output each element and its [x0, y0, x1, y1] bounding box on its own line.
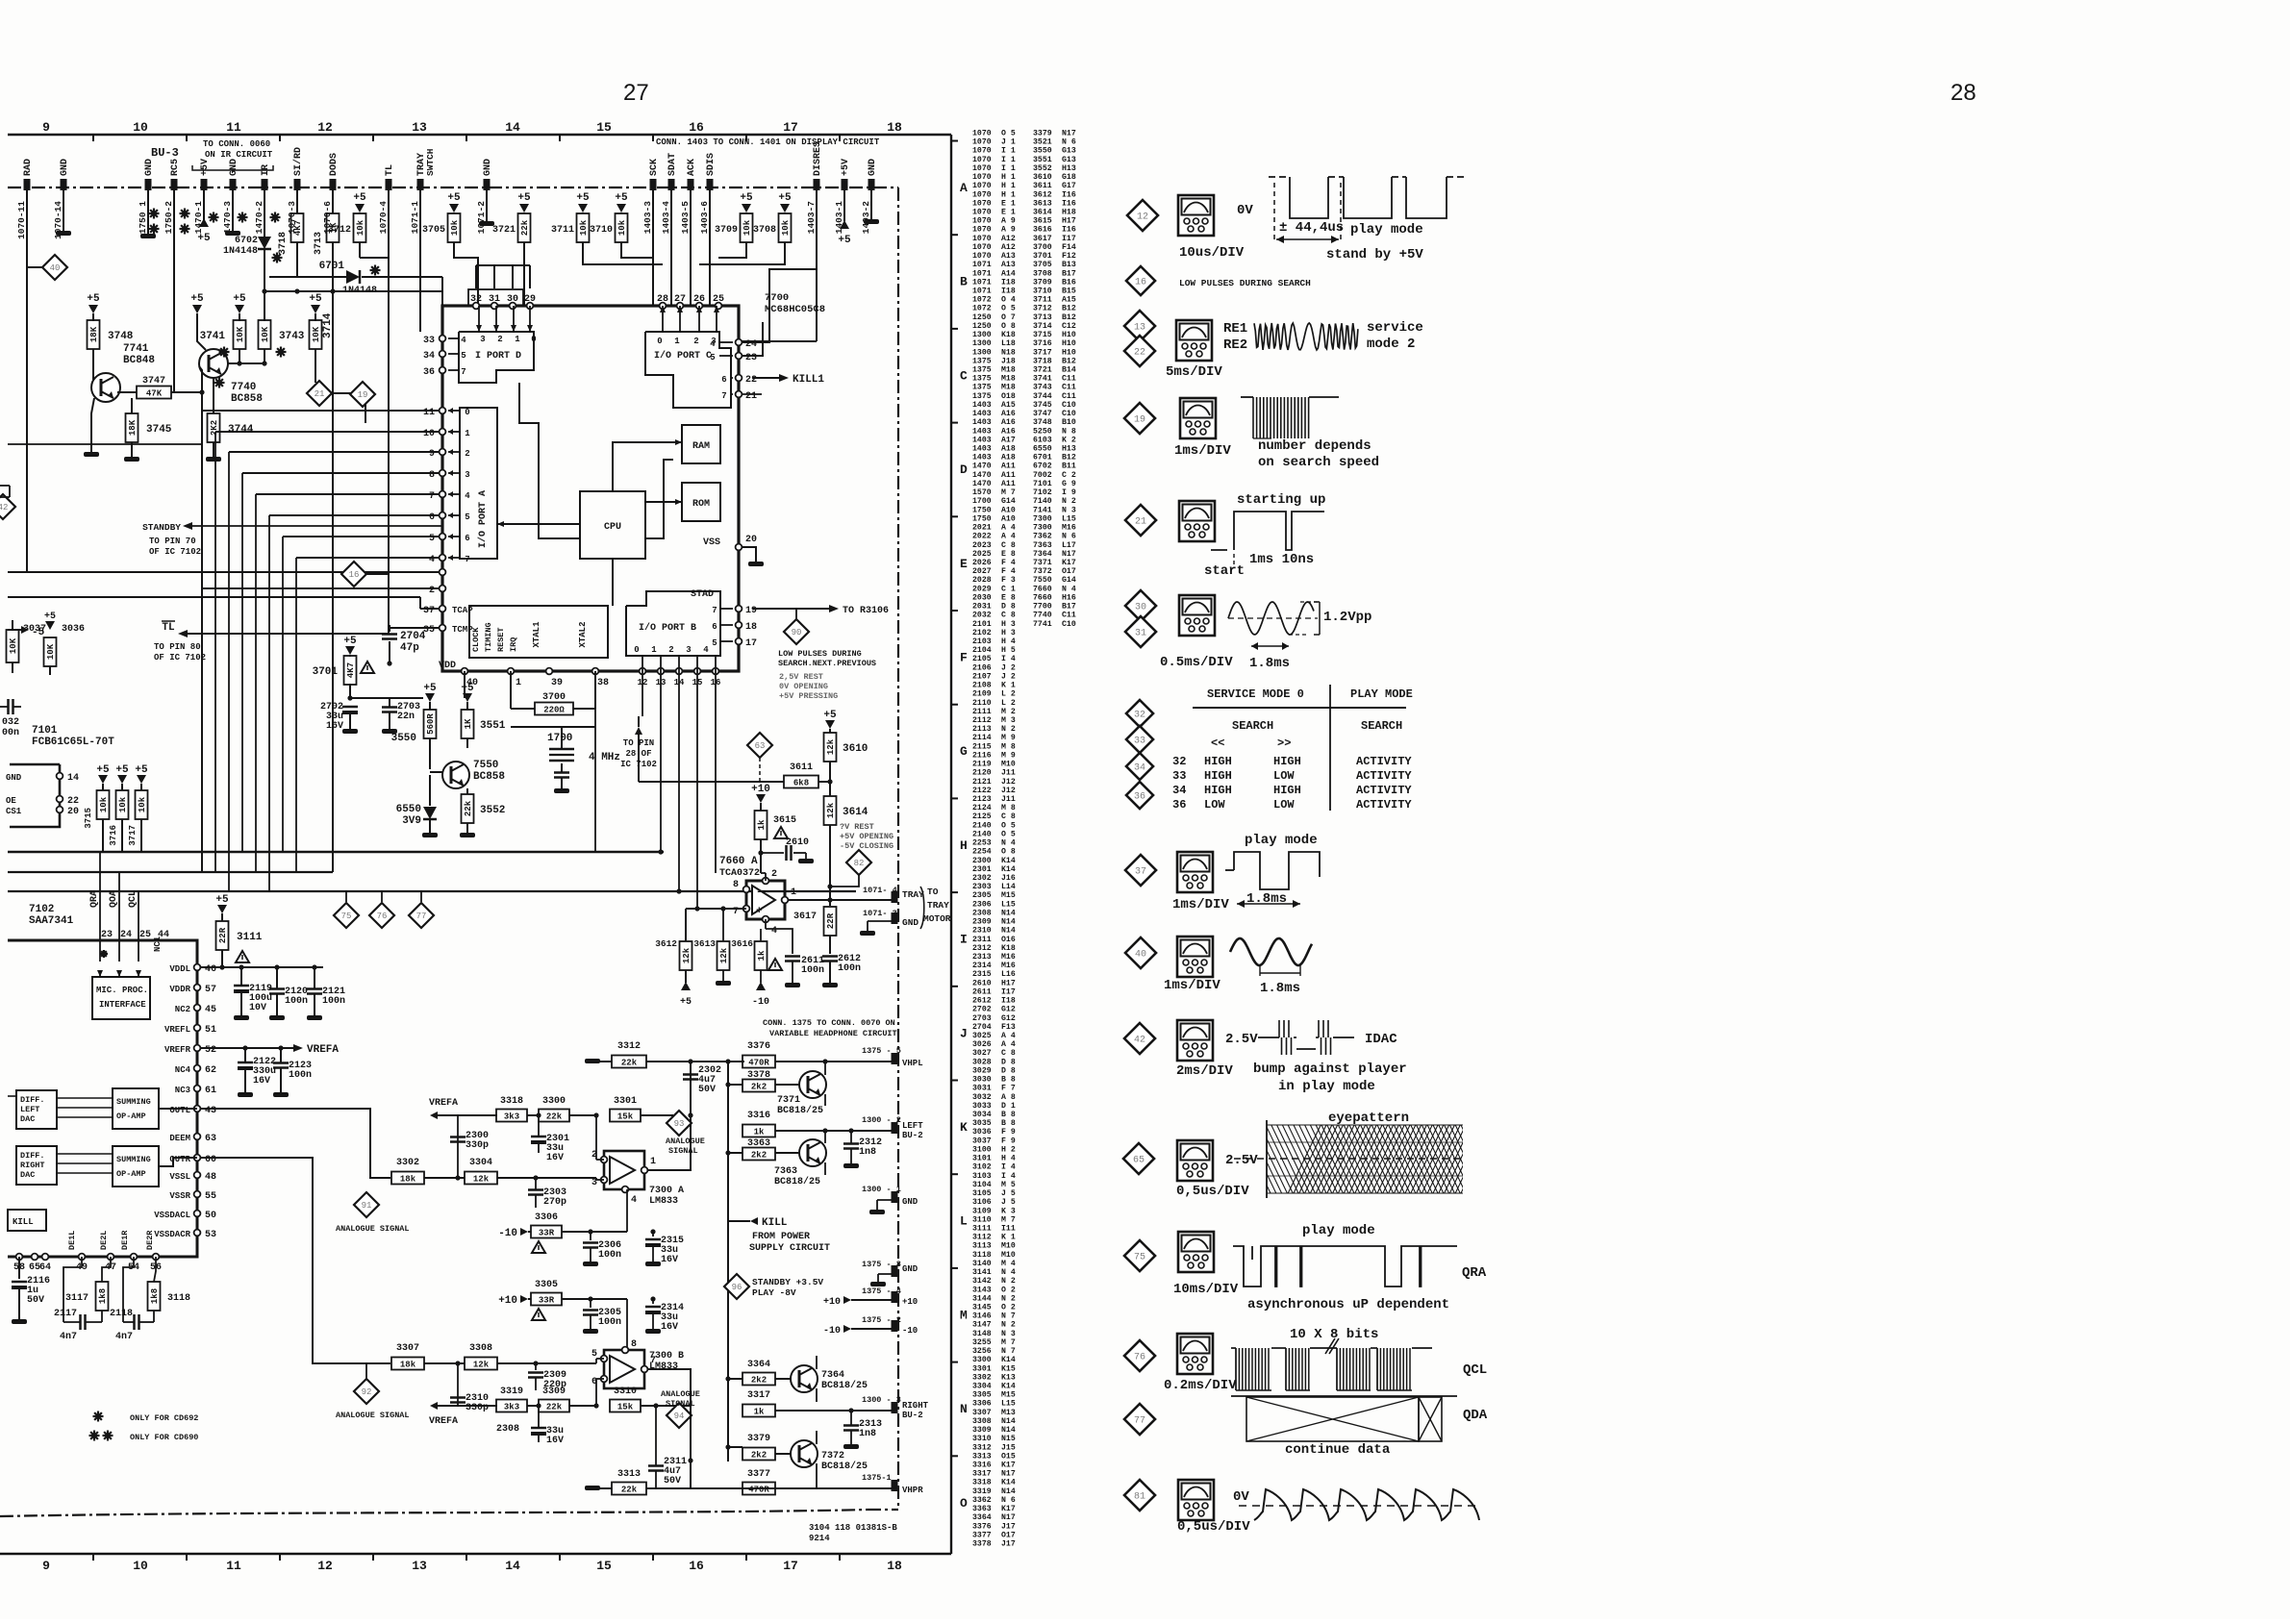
VSS pin 20 — [736, 544, 742, 551]
svg-text:O 2: O 2 — [1001, 1304, 1016, 1312]
svg-text:1403: 1403 — [972, 427, 992, 436]
svg-text:A15: A15 — [1001, 401, 1016, 410]
resistor 3317 1k — [742, 1405, 775, 1417]
svg-text:N17: N17 — [1001, 1470, 1016, 1479]
svg-text:+5: +5 — [517, 192, 531, 204]
svg-text:3748: 3748 — [1033, 418, 1052, 427]
selection mark — [272, 257, 283, 259]
top connector dash-dot line — [8, 187, 898, 188]
svg-text:LOW: LOW — [1273, 798, 1295, 812]
waveform ref diamond 40 — [1125, 937, 1156, 968]
svg-text:5: 5 — [465, 512, 469, 522]
crystal 1700 — [510, 671, 512, 709]
svg-text:BU-2: BU-2 — [902, 1411, 923, 1420]
svg-text:2301: 2301 — [972, 865, 992, 874]
svg-text:A17: A17 — [1001, 436, 1016, 444]
svg-text:18k: 18k — [400, 1361, 416, 1370]
svg-text:1403-7: 1403-7 — [806, 201, 817, 235]
svg-text:F: F — [960, 651, 968, 665]
svg-text:KILL: KILL — [762, 1217, 788, 1229]
svg-text:H18: H18 — [1062, 209, 1076, 217]
svg-text:CONN. 1375 TO CONN. 0070 ON: CONN. 1375 TO CONN. 0070 ON — [763, 1018, 895, 1028]
svg-text:LOW PULSES DURING: LOW PULSES DURING — [778, 649, 862, 659]
svg-text:0V OPENING: 0V OPENING — [779, 682, 828, 691]
svg-text:2.5V: 2.5V — [1225, 1153, 1258, 1168]
svg-text:4: 4 — [429, 555, 435, 565]
svg-text:3037: 3037 — [23, 624, 46, 635]
svg-text:+5: +5 — [309, 293, 322, 305]
waveform RE burst — [1254, 323, 1358, 350]
svg-text:N 7: N 7 — [1001, 1312, 1016, 1321]
svg-text:9: 9 — [42, 120, 50, 135]
svg-text:3113: 3113 — [972, 1242, 992, 1251]
port B pin 15 wire down — [696, 671, 698, 909]
svg-text:1ms/DIV: 1ms/DIV — [1174, 443, 1231, 459]
svg-text:50: 50 — [205, 1211, 216, 1221]
svg-text:1071: 1071 — [972, 287, 992, 296]
resistor 3743 10K — [264, 320, 265, 322]
ground — [869, 1210, 885, 1214]
svg-text:2124: 2124 — [972, 804, 992, 812]
resistor 3711 10k with +5 — [578, 204, 588, 212]
svg-text:1403-4: 1403-4 — [661, 201, 671, 235]
ground — [269, 1015, 285, 1020]
svg-text:asynchronous uP dependent: asynchronous uP dependent — [1247, 1297, 1449, 1312]
svg-text:25: 25 — [139, 930, 151, 940]
svg-text:B16: B16 — [1062, 278, 1076, 287]
svg-text:ON IR CIRCUIT: ON IR CIRCUIT — [205, 150, 273, 160]
svg-text:21: 21 — [315, 389, 325, 399]
connector pin 1470-2 — [262, 179, 268, 190]
svg-text:M: M — [960, 1308, 968, 1322]
svg-text:L16: L16 — [1001, 970, 1016, 979]
svg-text:H 4: H 4 — [1001, 637, 1016, 646]
svg-text:3721: 3721 — [492, 225, 516, 236]
svg-text:-10: -10 — [823, 1326, 841, 1337]
svg-text:1403: 1403 — [972, 454, 992, 462]
svg-text:1: 1 — [650, 1157, 656, 1167]
svg-text:1072: 1072 — [972, 296, 992, 305]
zener 6550 3V9 — [429, 775, 431, 806]
svg-text:2031: 2031 — [972, 603, 992, 612]
svg-text:100n: 100n — [801, 965, 824, 976]
svg-text:10k: 10k — [138, 796, 147, 812]
waveform ref diamond 42 — [1124, 1023, 1155, 1054]
svg-text:21: 21 — [745, 391, 757, 402]
opamp B wires — [575, 1362, 596, 1364]
svg-text:2122: 2122 — [972, 787, 992, 795]
svg-text:3111: 3111 — [972, 1225, 992, 1234]
svg-text:2102: 2102 — [972, 629, 992, 637]
svg-text:1ms/DIV: 1ms/DIV — [1164, 978, 1220, 993]
svg-text:1300: 1300 — [972, 339, 992, 348]
svg-text:N 6: N 6 — [1001, 1496, 1016, 1505]
svg-text:3256: 3256 — [972, 1347, 992, 1356]
svg-text:F14: F14 — [1062, 243, 1076, 252]
pins TCAP TCMP — [440, 606, 446, 612]
svg-text:6702: 6702 — [1033, 462, 1052, 471]
svg-text:play mode: play mode — [1302, 1223, 1375, 1238]
svg-text:3308: 3308 — [469, 1343, 492, 1354]
ground — [124, 457, 139, 462]
svg-text:M18: M18 — [1001, 366, 1016, 375]
svg-text:3302: 3302 — [972, 1373, 992, 1382]
svg-text:HIGH: HIGH — [1204, 755, 1232, 768]
svg-text:18: 18 — [887, 120, 902, 135]
svg-text:45: 45 — [205, 1005, 216, 1015]
svg-text:M16: M16 — [1062, 524, 1076, 533]
svg-text:22k: 22k — [621, 1486, 638, 1495]
selection mark — [149, 212, 160, 214]
svg-text:7364: 7364 — [1033, 550, 1052, 559]
svg-text:3712: 3712 — [1033, 305, 1052, 313]
svg-text:+5: +5 — [778, 192, 792, 204]
svg-text:3748: 3748 — [108, 331, 134, 342]
svg-text:>>: >> — [1277, 737, 1291, 750]
resistor 3718 4K7 — [291, 213, 304, 242]
svg-text:3700: 3700 — [542, 692, 566, 703]
svg-text:52: 52 — [205, 1045, 216, 1056]
svg-text:N17: N17 — [1001, 1513, 1016, 1522]
svg-text:ROM: ROM — [692, 499, 710, 510]
svg-text:K14: K14 — [1001, 865, 1016, 874]
port B right pins 19 18 17 — [736, 606, 742, 612]
svg-text:10: 10 — [423, 429, 435, 439]
svg-text:TRAY: TRAY — [902, 889, 924, 900]
svg-text:50V: 50V — [664, 1476, 681, 1487]
svg-text:VDDR: VDDR — [169, 985, 190, 994]
svg-text:K14: K14 — [1001, 1479, 1016, 1487]
capacitor 2702 33u 16V — [342, 706, 358, 709]
svg-text:3309: 3309 — [542, 1387, 566, 1397]
svg-text:21: 21 — [1135, 517, 1146, 528]
svg-text:2108: 2108 — [972, 682, 992, 690]
svg-text:SERVICE MODE 0: SERVICE MODE 0 — [1207, 687, 1304, 701]
right boundary dash-dot line — [897, 187, 899, 1510]
svg-text:?V REST: ?V REST — [840, 822, 874, 832]
svg-text:3743: 3743 — [1033, 384, 1052, 392]
ground — [460, 833, 475, 837]
svg-text:2120: 2120 — [972, 769, 992, 778]
svg-text:C 8: C 8 — [1001, 1049, 1016, 1058]
svg-text:M 2: M 2 — [1001, 708, 1016, 716]
port A input wires staircase — [202, 410, 439, 412]
waveform ref diamond 13 — [1124, 311, 1155, 341]
cap 2305 100n — [588, 1296, 592, 1301]
svg-text:46: 46 — [205, 964, 216, 975]
oscilloscope icon — [1176, 320, 1212, 361]
svg-text:± 44,4us: ± 44,4us — [1279, 220, 1344, 236]
svg-text:3364: 3364 — [747, 1360, 770, 1370]
svg-text:16: 16 — [1135, 278, 1146, 288]
svg-text:36: 36 — [423, 367, 435, 378]
resistor 3376 470R — [742, 1056, 775, 1068]
svg-text:J 1: J 1 — [1001, 138, 1016, 147]
svg-text:K18: K18 — [1001, 944, 1016, 953]
oscilloscope icon — [1177, 852, 1213, 892]
svg-text:3614: 3614 — [1033, 209, 1052, 217]
wire OUTR to filter — [201, 1158, 390, 1363]
svg-text:1k: 1k — [754, 1408, 765, 1417]
cap 2308 33u — [531, 1427, 546, 1430]
svg-text:37: 37 — [1135, 867, 1146, 878]
svg-text:24: 24 — [745, 339, 757, 350]
svg-text:3718: 3718 — [278, 232, 289, 255]
VREFA feed — [430, 1112, 438, 1119]
svg-text:16: 16 — [689, 120, 704, 135]
selection mark — [180, 228, 190, 230]
crystal caps — [561, 763, 563, 772]
svg-text:1403-6: 1403-6 — [699, 201, 710, 235]
svg-text:VREFA: VREFA — [307, 1044, 339, 1056]
vertical bus x210 — [201, 392, 203, 588]
selection mark — [214, 382, 225, 384]
svg-text:64: 64 — [39, 1262, 51, 1273]
svg-text:6: 6 — [465, 534, 469, 543]
cap 2302 4u7 — [683, 1073, 698, 1076]
svg-text:3310: 3310 — [614, 1387, 637, 1397]
resistor 3611 6k8 — [784, 776, 818, 788]
svg-text:16: 16 — [689, 1559, 704, 1573]
CPU box — [580, 491, 645, 559]
ground — [645, 1262, 661, 1266]
svg-text:7363: 7363 — [774, 1166, 797, 1177]
svg-text:1n8: 1n8 — [859, 1429, 876, 1439]
svg-text:H13: H13 — [1062, 445, 1076, 454]
svg-text:+5V PRESSING: +5V PRESSING — [779, 691, 838, 701]
svg-text:330p: 330p — [466, 1403, 489, 1413]
selection mark — [89, 1435, 100, 1437]
svg-text:GND: GND — [902, 1264, 919, 1274]
svg-text:10k: 10k — [742, 219, 752, 236]
connector pin TRAY — [417, 179, 424, 190]
svg-text:17: 17 — [745, 638, 757, 649]
svg-text:E: E — [960, 557, 968, 571]
waveform play-mode square wave — [1269, 176, 1290, 178]
svg-text:M 7: M 7 — [1001, 1215, 1016, 1224]
svg-text:16V: 16V — [661, 1255, 678, 1265]
svg-text:H17: H17 — [1062, 217, 1076, 226]
svg-text:GND: GND — [483, 159, 493, 176]
svg-text:-10: -10 — [752, 997, 769, 1008]
svg-text:IDAC: IDAC — [1365, 1032, 1397, 1047]
svg-text:2028: 2028 — [972, 576, 992, 585]
supply +5 below 1470-1 — [199, 218, 209, 227]
svg-text:17: 17 — [783, 120, 798, 135]
svg-text:O 2: O 2 — [1001, 1286, 1016, 1294]
svg-text:3744: 3744 — [1033, 392, 1052, 401]
svg-text:M18: M18 — [1001, 375, 1016, 384]
waveform ref diamond 77 — [1124, 1404, 1155, 1435]
svg-text:12: 12 — [1137, 212, 1148, 223]
svg-text:F 3: F 3 — [1001, 576, 1016, 585]
svg-text:2140: 2140 — [972, 830, 992, 838]
svg-text:75: 75 — [1134, 1253, 1145, 1263]
svg-text:36: 36 — [1172, 798, 1186, 812]
svg-text:62: 62 — [205, 1065, 216, 1076]
svg-text:NC2: NC2 — [175, 1005, 190, 1014]
svg-text:3313: 3313 — [617, 1469, 641, 1480]
svg-text:VREFL: VREFL — [164, 1025, 190, 1035]
svg-text:3317: 3317 — [972, 1470, 992, 1479]
transistor 7363 — [742, 1148, 775, 1161]
waveform search pulses — [1241, 396, 1253, 398]
svg-text:13: 13 — [412, 1559, 427, 1573]
svg-text:J17: J17 — [1001, 1540, 1016, 1549]
svg-text:3616: 3616 — [1033, 226, 1052, 235]
svg-text:3305: 3305 — [535, 1280, 558, 1290]
transistor 7371 — [742, 1080, 775, 1092]
svg-text:K 1: K 1 — [1001, 1234, 1016, 1242]
svg-text:2110: 2110 — [972, 699, 992, 708]
frame right border — [950, 135, 952, 1554]
svg-text:M 8: M 8 — [1001, 804, 1016, 812]
svg-text:38: 38 — [597, 678, 609, 688]
svg-text:16V: 16V — [546, 1153, 564, 1163]
wire VDDL net — [201, 966, 222, 968]
svg-text:stand by +5V: stand by +5V — [1326, 247, 1423, 262]
svg-text:+5: +5 — [423, 683, 437, 694]
svg-text:42: 42 — [1134, 1036, 1145, 1046]
svg-text:51: 51 — [205, 1025, 216, 1036]
svg-text:3376: 3376 — [747, 1041, 770, 1052]
vertical staircase drops — [201, 411, 203, 872]
svg-text:N17: N17 — [1062, 130, 1076, 138]
svg-text:1070-4: 1070-4 — [378, 201, 389, 235]
svg-text:3k3: 3k3 — [504, 1112, 519, 1122]
svg-text:15k: 15k — [617, 1112, 634, 1122]
svg-text:0V: 0V — [1237, 203, 1253, 218]
svg-text:1.8ms: 1.8ms — [1246, 891, 1287, 907]
svg-text:1750-2: 1750-2 — [164, 201, 174, 235]
wire pin2 long — [202, 587, 439, 589]
svg-text:1470-1: 1470-1 — [193, 201, 204, 235]
svg-text:4K7: 4K7 — [346, 662, 356, 678]
cap 2301 33u — [531, 1136, 546, 1138]
svg-text:3612: 3612 — [655, 938, 677, 949]
svg-text:O 5: O 5 — [1001, 821, 1016, 830]
svg-text:7700: 7700 — [765, 292, 789, 304]
svg-text:1300: 1300 — [972, 348, 992, 357]
svg-text:3378: 3378 — [972, 1540, 992, 1549]
svg-text:3118: 3118 — [167, 1293, 190, 1304]
svg-text:12k: 12k — [473, 1361, 490, 1370]
svg-text:3307: 3307 — [972, 1409, 992, 1417]
svg-text:3304: 3304 — [972, 1383, 992, 1391]
bus y907 — [8, 871, 333, 873]
svg-text:560R: 560R — [426, 713, 436, 735]
svg-text:4: 4 — [465, 491, 470, 501]
svg-text:90: 90 — [792, 628, 802, 637]
svg-text:N14: N14 — [1001, 1417, 1016, 1426]
svg-text:2309: 2309 — [972, 918, 992, 927]
svg-text:B12: B12 — [1062, 454, 1076, 462]
svg-text:2305: 2305 — [972, 891, 992, 900]
svg-text:3550: 3550 — [1033, 147, 1052, 156]
svg-text:2310: 2310 — [972, 927, 992, 936]
svg-text:1ms 10ns: 1ms 10ns — [1249, 552, 1314, 567]
measure 1.2Vpp — [1319, 602, 1321, 635]
waveform ref diamond 32 — [1126, 700, 1153, 727]
svg-text:TO PIN 80: TO PIN 80 — [154, 642, 201, 652]
svg-text:1: 1 — [465, 429, 470, 438]
svg-text:3104 118 01381S-B: 3104 118 01381S-B — [809, 1523, 897, 1533]
svg-text:O 8: O 8 — [1001, 322, 1016, 331]
svg-text:1: 1 — [791, 887, 796, 898]
svg-text:-10: -10 — [902, 1326, 918, 1336]
selection mark — [103, 1435, 113, 1437]
svg-text:3143: 3143 — [972, 1286, 992, 1294]
svg-text:3033: 3033 — [972, 1102, 992, 1111]
svg-text:1ms/DIV: 1ms/DIV — [1172, 897, 1229, 912]
svg-text:OF IC 7102: OF IC 7102 — [154, 653, 206, 662]
svg-text:VSSDACR: VSSDACR — [154, 1230, 190, 1239]
resistor 3551 — [463, 693, 472, 702]
svg-text:L18: L18 — [1001, 339, 1016, 348]
svg-text:0: 0 — [657, 337, 662, 346]
VDD wire from IC pin 40 — [423, 671, 465, 698]
svg-text:4n7: 4n7 — [115, 1332, 133, 1342]
svg-text:11: 11 — [226, 1559, 241, 1573]
svg-text:1.8ms: 1.8ms — [1260, 981, 1300, 996]
svg-text:3106: 3106 — [972, 1198, 992, 1207]
svg-text:3379: 3379 — [747, 1434, 770, 1444]
wire ACK down — [690, 187, 692, 306]
svg-text:11: 11 — [423, 408, 435, 418]
wire SCK down — [652, 187, 654, 306]
svg-text:J18: J18 — [1001, 357, 1016, 365]
svg-text:32: 32 — [1172, 755, 1186, 768]
svg-text:10k: 10k — [356, 219, 365, 236]
svg-text:3377: 3377 — [972, 1531, 992, 1539]
svg-text:H 1: H 1 — [1001, 173, 1016, 182]
svg-text:55: 55 — [205, 1191, 216, 1202]
svg-text:A16: A16 — [1001, 410, 1016, 418]
svg-text:91: 91 — [362, 1201, 372, 1211]
connector pin 1070-14 — [61, 179, 67, 190]
svg-text:24: 24 — [120, 930, 132, 940]
svg-text:A 9: A 9 — [1001, 226, 1016, 235]
ROM box — [682, 483, 720, 521]
warning triangle — [532, 1241, 545, 1253]
component grid-location list — [972, 130, 1076, 1549]
svg-text:VDDL: VDDL — [169, 964, 190, 974]
svg-text:2109: 2109 — [972, 690, 992, 699]
wire QRA QOA QCL from bus — [99, 852, 101, 940]
svg-text:J12: J12 — [1001, 778, 1016, 787]
svg-text:NC1: NC1 — [153, 936, 163, 952]
ground — [382, 729, 397, 734]
svg-text:A 4: A 4 — [1001, 533, 1016, 541]
svg-text:3148: 3148 — [972, 1330, 992, 1338]
svg-text:7101: 7101 — [32, 725, 58, 737]
svg-text:L15: L15 — [1001, 900, 1016, 909]
svg-text:D 8: D 8 — [1001, 1067, 1016, 1076]
resistor 3744 2K2 — [213, 378, 214, 413]
resistor 3708 10k with +5 — [780, 204, 790, 212]
waveform ref diamond 30 — [1125, 590, 1156, 621]
svg-text:10k: 10k — [450, 219, 460, 236]
svg-text:2314: 2314 — [972, 962, 992, 970]
svg-text:F 9: F 9 — [1001, 1128, 1016, 1137]
waveform ref diamond 22 — [1124, 336, 1155, 366]
svg-text:5: 5 — [461, 351, 466, 361]
svg-text:ONLY FOR CD690: ONLY FOR CD690 — [130, 1433, 198, 1442]
svg-text:A 4: A 4 — [1001, 1032, 1016, 1040]
svg-text:I17: I17 — [1062, 235, 1076, 243]
resistor 3712 10k with +5 — [355, 204, 365, 212]
connector pin 1403-2 — [868, 179, 875, 190]
